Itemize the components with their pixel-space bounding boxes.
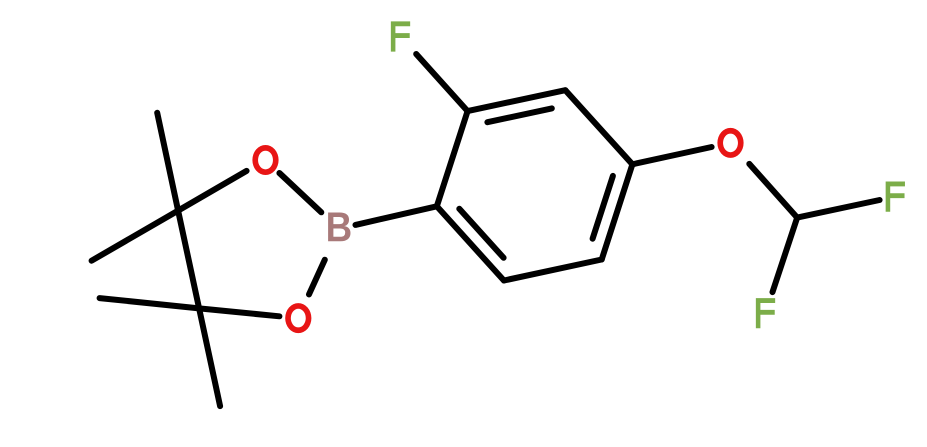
wire CHF2-F right [797, 200, 879, 218]
wire B-O1 [279, 173, 321, 212]
wire C4-methyl2 [157, 113, 178, 211]
wire O-CHF2 [749, 164, 797, 218]
wire C5-methyl4 [199, 308, 220, 406]
wire ring C4a-C5a [602, 164, 633, 259]
wire ring C1-C2 [437, 111, 468, 206]
wire CHF2-F bottom [773, 218, 798, 293]
wire ring C3-C4a [565, 90, 632, 164]
wire O2-C5 [199, 308, 279, 316]
wire B-C1 [356, 206, 437, 225]
wire B-O2 [309, 260, 325, 295]
atom label O (pinacol top) [252, 145, 278, 175]
double bond inner v0-v5 [459, 209, 503, 258]
wire O1-C4 [178, 171, 247, 211]
wire C4a-O ether [632, 147, 711, 164]
atom label B [328, 213, 350, 242]
wire C4-C5 [178, 211, 199, 309]
wire C4-methyl1 [92, 211, 179, 261]
wire ring C6-C1 [437, 206, 504, 280]
double bond inner v1-v2 [487, 108, 551, 122]
double bond inner v3-v4 [593, 176, 613, 239]
atom label O (pinacol bottom) [285, 303, 311, 333]
atom label O (ether) [717, 128, 743, 158]
atom label F (bottom) [756, 298, 775, 328]
wire ring C2-C3 [468, 90, 566, 111]
atom label F (top) [391, 21, 410, 51]
wire C5-methyl3 [100, 298, 200, 308]
wire C2-F [416, 54, 467, 111]
wire ring C5a-C6 [504, 260, 602, 281]
atom label F (right) [886, 181, 905, 211]
